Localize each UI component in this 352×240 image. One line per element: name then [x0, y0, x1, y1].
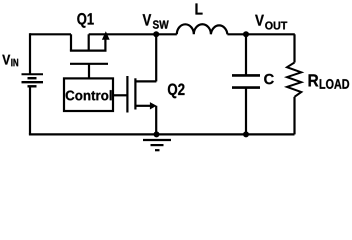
label RLOAD sub	[320, 79, 349, 89]
transistor Q2 arrow	[150, 102, 157, 109]
wire right branch upper	[293, 34, 295, 62]
transistor Q2 source lead	[135, 105, 150, 107]
transistor Q1 gate bar	[70, 63, 108, 65]
ground bar 2	[151, 144, 164, 146]
transistor Q2 channel bar	[134, 78, 136, 109]
label RLOAD R	[309, 74, 319, 86]
label VSW V	[143, 14, 152, 25]
wire Q2 source to ground rail	[155, 106, 157, 135]
ground bar 1	[143, 139, 171, 141]
transistor Q1 arrow	[102, 31, 110, 50]
transistor Q1 source vertical	[70, 34, 72, 50]
wire top rail VSW segment	[89, 33, 177, 35]
transistor Q1 channel bar	[70, 49, 107, 51]
wire top-left segment	[30, 33, 71, 35]
transistor Q1 gate stub	[88, 64, 90, 79]
wire control to Q2 gate	[113, 94, 127, 96]
node VOUT junction dot	[243, 31, 249, 37]
label C	[264, 74, 274, 84]
capacitor bottom junction dot	[243, 131, 249, 137]
transistor Q2 drain lead	[135, 80, 156, 82]
capacitor C bottom stub	[245, 88, 247, 135]
wire right branch lower	[293, 97, 295, 135]
battery VIN plate long2	[22, 81, 44, 83]
battery VIN plate short1	[28, 77, 37, 79]
wire Q2 drain to VSW node	[155, 34, 157, 81]
wire bottom rail	[29, 133, 295, 135]
label VOUT V	[255, 15, 264, 26]
wire top rail VOUT segment	[227, 33, 294, 35]
label Q1	[77, 13, 93, 28]
battery VIN plate long1	[22, 73, 44, 75]
control box U1	[64, 78, 113, 111]
battery VIN plate short2	[28, 85, 37, 87]
capacitor C top plate	[232, 74, 260, 77]
label Q2	[168, 84, 185, 99]
label L	[196, 4, 203, 15]
ground junction dot	[154, 131, 160, 137]
text Control	[66, 90, 112, 100]
wire Vin branch lower	[29, 86, 31, 134]
capacitor C top stub	[245, 34, 247, 75]
label VSW sub	[153, 20, 169, 28]
wire Vin branch upper	[29, 33, 31, 74]
capacitor C bottom plate	[232, 86, 260, 89]
inductor L	[177, 24, 228, 34]
resistor RLOAD zigzag	[287, 63, 301, 97]
transistor Q2 gate bar	[126, 76, 128, 113]
label VOUT sub	[265, 21, 287, 29]
transistor Q1 drain vertical	[88, 34, 90, 50]
ground bar 3	[155, 149, 160, 151]
label VIN V	[2, 55, 10, 65]
label VIN sub	[11, 59, 18, 66]
node VSW junction dot	[153, 31, 159, 37]
